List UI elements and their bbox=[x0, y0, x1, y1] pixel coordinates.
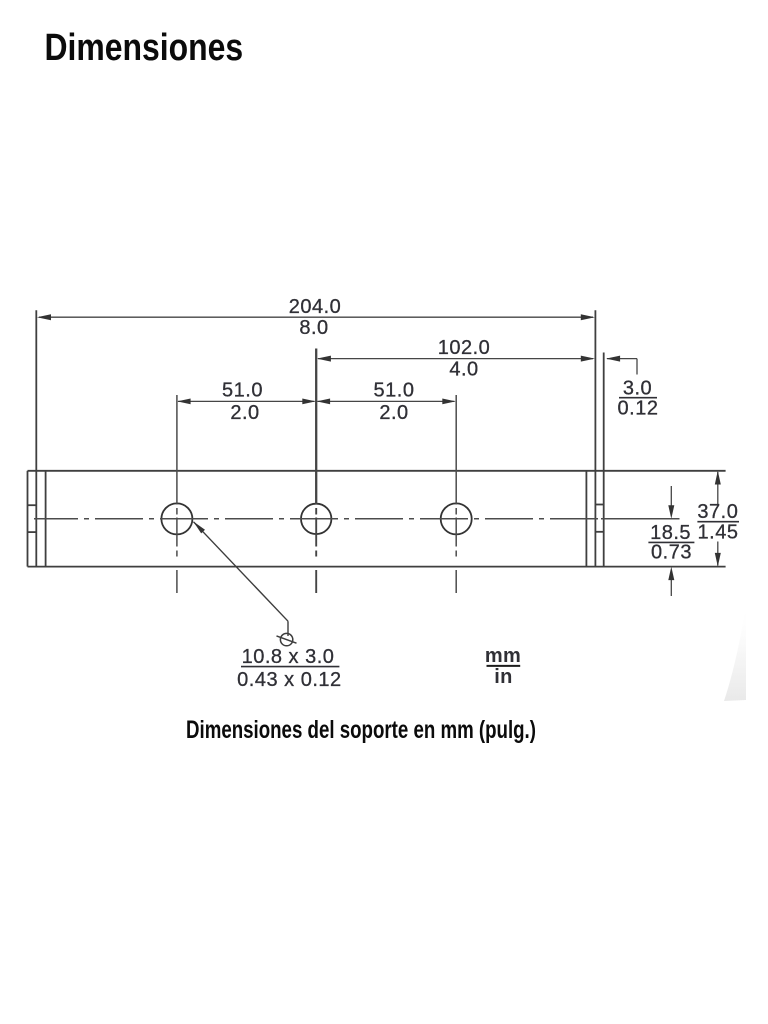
fraction bar mm/in bbox=[487, 665, 521, 667]
centerline extension right bbox=[601, 518, 680, 520]
plate right edge / 3.0 extension bbox=[603, 353, 605, 567]
slot diameter symbol bbox=[277, 633, 297, 645]
dimension 204.0 line bbox=[37, 314, 595, 320]
fraction bar slot bbox=[241, 666, 339, 668]
fraction bar 3.0/0.12 bbox=[619, 397, 657, 399]
svg-text:Dimensiones: Dimensiones bbox=[45, 26, 244, 68]
hole 3 vertical centerline bbox=[455, 395, 457, 593]
hole 2 vertical centerline bbox=[315, 349, 317, 594]
dimension 3.0 leader bbox=[606, 356, 637, 375]
svg-text:102.0: 102.0 bbox=[438, 337, 491, 359]
svg-text:0.73: 0.73 bbox=[651, 542, 692, 564]
caption bbox=[186, 715, 536, 743]
svg-text:mm: mm bbox=[485, 645, 521, 667]
left second inner vertical line bbox=[45, 471, 47, 567]
left tick lower bbox=[28, 531, 37, 533]
right mid vertical line / 204-102 extension bbox=[594, 310, 596, 566]
svg-text:204.0: 204.0 bbox=[289, 296, 342, 318]
dimension 102.0 line bbox=[317, 356, 595, 362]
right tick upper bbox=[595, 504, 603, 506]
svg-text:10.8 x 3.0: 10.8 x 3.0 bbox=[242, 646, 335, 668]
title Dimensiones bbox=[45, 26, 244, 68]
right tick lower bbox=[595, 531, 603, 533]
fraction bar 37.0/1.45 bbox=[697, 521, 739, 523]
dimension 37.0 vertical line bbox=[715, 471, 721, 567]
right inner vertical line bbox=[585, 471, 587, 567]
fraction bar 18.5/0.73 bbox=[648, 541, 694, 543]
svg-text:1.45: 1.45 bbox=[698, 522, 739, 544]
hole callout leader arrow bbox=[193, 521, 288, 636]
svg-text:2.0: 2.0 bbox=[379, 402, 408, 424]
dimension 51.0 left line bbox=[177, 399, 316, 405]
page curl shadow bottom right bbox=[724, 604, 746, 701]
hole 3 bbox=[441, 503, 472, 534]
left tick upper bbox=[28, 504, 37, 506]
svg-text:0.12: 0.12 bbox=[618, 398, 659, 420]
svg-text:Dimensiones del soporte en mm: Dimensiones del soporte en mm (pulg.) bbox=[186, 715, 536, 743]
svg-text:51.0: 51.0 bbox=[374, 380, 415, 402]
dimension 51.0 right line bbox=[317, 399, 456, 405]
left inner vertical line / 204 extension bbox=[35, 310, 37, 566]
hole 2 bbox=[301, 504, 331, 534]
plate top edge (extended right for 37.0 dim) bbox=[28, 470, 726, 472]
svg-text:in: in bbox=[494, 666, 513, 688]
dimension 18.5 arrows bbox=[668, 486, 674, 596]
plate bottom edge (extended right for 37.0 dim) bbox=[28, 566, 726, 568]
svg-text:37.0: 37.0 bbox=[697, 501, 738, 523]
plate left edge bbox=[27, 471, 29, 567]
hole 1 bbox=[161, 503, 192, 534]
svg-text:8.0: 8.0 bbox=[299, 317, 328, 339]
svg-text:3.0: 3.0 bbox=[623, 378, 652, 400]
svg-text:4.0: 4.0 bbox=[449, 359, 478, 381]
hole 1 vertical centerline bbox=[176, 395, 178, 593]
svg-text:51.0: 51.0 bbox=[222, 380, 263, 402]
horizontal centerline dash-dot bbox=[34, 518, 601, 520]
svg-text:0.43 x 0.12: 0.43 x 0.12 bbox=[237, 669, 341, 691]
svg-text:2.0: 2.0 bbox=[230, 402, 259, 424]
